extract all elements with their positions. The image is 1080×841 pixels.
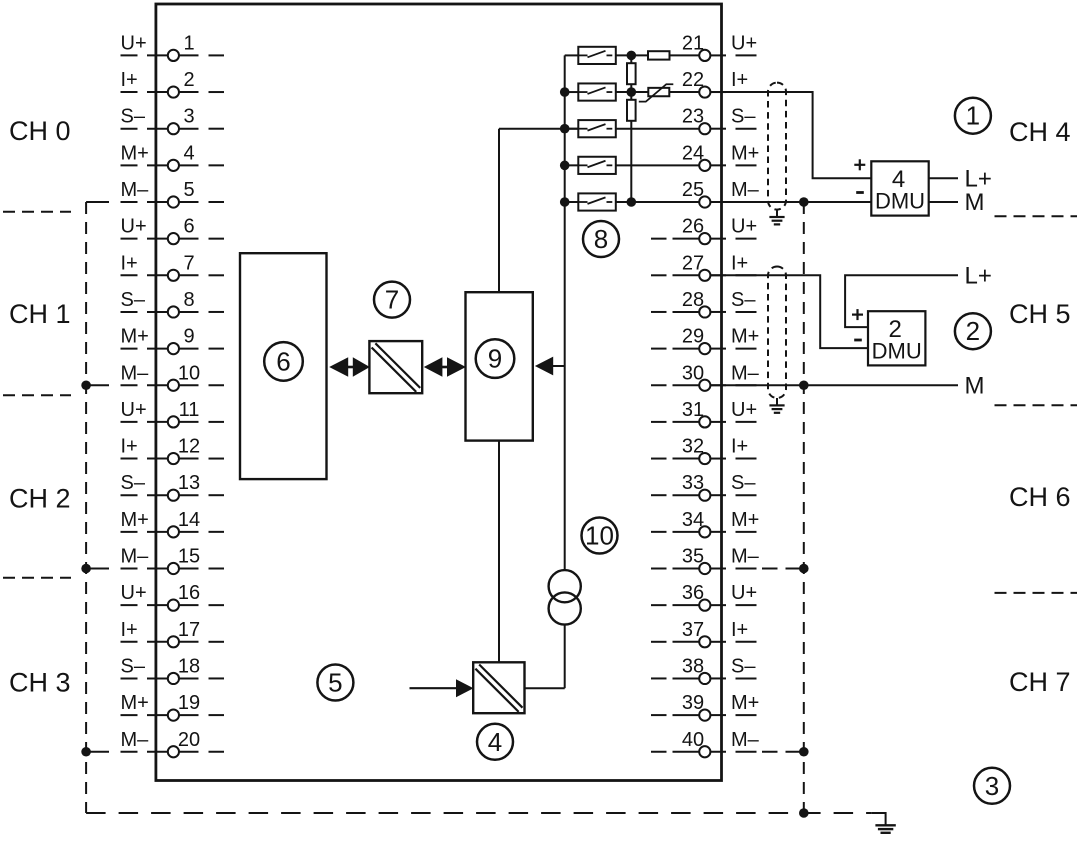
wire DMU1 to L+ supply	[929, 177, 958, 179]
svg-text:M–: M–	[121, 729, 150, 751]
wire bus to block 9 arrow	[552, 365, 565, 367]
bottom ground symbol bar 2	[878, 828, 893, 830]
wire block 9 bottom to block 4	[498, 441, 500, 663]
wire tick through border at terminal 38	[710, 677, 726, 679]
wire into block 4 arrow shaft	[410, 687, 458, 689]
terminal 36 inner dash	[651, 604, 667, 606]
svg-text:S–: S–	[121, 655, 146, 677]
terminal 10 label underline wire stub	[121, 384, 138, 386]
terminal 18 inner dash	[209, 677, 225, 679]
terminal 13 inner dash	[209, 494, 225, 496]
varistor RV1 diagonal	[639, 84, 674, 101]
wire varistor RV1 to terminal 22	[669, 91, 699, 93]
terminal 14 screw circle	[168, 526, 179, 537]
wire tick into module at terminal 6	[147, 238, 168, 240]
switch S1 contact	[578, 51, 612, 58]
wire resistor R1 to terminal 21	[670, 54, 700, 56]
terminal 35 label underline wire stub	[736, 568, 757, 570]
terminal 7 screw circle	[168, 270, 179, 281]
cable shield CH5 (dashed stadium)	[768, 267, 786, 399]
svg-text:M+: M+	[121, 142, 149, 164]
terminal 39 inner stub wire	[673, 714, 700, 716]
terminal 19 screw circle	[168, 710, 179, 721]
svg-text:3: 3	[985, 771, 999, 801]
wire tick through border at terminal 40	[710, 751, 726, 753]
terminal 3 label underline wire stub	[121, 128, 138, 130]
terminal 4 screw circle	[168, 160, 179, 171]
module enclosure border	[156, 4, 722, 781]
wire terminal 22 to DMU1 + input	[710, 92, 871, 178]
svg-text:I+: I+	[121, 69, 138, 91]
terminal 40 label underline wire stub	[736, 751, 757, 753]
terminal 29 label underline wire stub	[736, 348, 757, 350]
switch S1 box	[578, 47, 616, 64]
transformer winding circle upper	[549, 570, 581, 602]
terminal 36 inner stub wire	[673, 604, 700, 606]
wire dash from left ground bus to terminal 15	[86, 568, 109, 570]
cable shield CH4 (dashed stadium)	[768, 83, 786, 210]
block 6 (bus interface)	[240, 253, 327, 479]
svg-text:10: 10	[178, 362, 200, 384]
wire tick into module at terminal 1	[147, 54, 168, 56]
svg-text:5: 5	[183, 179, 194, 201]
terminal 11 screw circle	[168, 416, 179, 427]
svg-text:CH 0: CH 0	[9, 116, 71, 146]
terminal 6 label underline wire stub	[121, 238, 138, 240]
terminal 20 screw circle	[168, 746, 179, 757]
wire tick through border at terminal 31	[710, 421, 726, 423]
arrow from bus into block 9	[535, 357, 553, 376]
wire tick into module at terminal 18	[147, 677, 168, 679]
svg-text:1: 1	[183, 32, 194, 54]
terminal 12 screw circle	[168, 453, 179, 464]
DMU1 + polarity	[854, 159, 865, 170]
terminal 8 inner stub wire	[179, 311, 199, 313]
bidirectional arrow 7-9 right head	[447, 357, 466, 377]
wire tick through border at terminal 39	[710, 714, 726, 716]
wire MUX tap to switch row 23	[499, 128, 578, 130]
terminal 18 screw circle	[168, 673, 179, 684]
terminal 37 inner stub wire	[673, 641, 700, 643]
terminal 34 inner stub wire	[673, 531, 700, 533]
svg-text:15: 15	[178, 546, 200, 568]
DMU2 + polarity	[852, 309, 863, 320]
junction bus / switch row 25	[560, 197, 570, 207]
terminal 32 label underline wire stub	[736, 458, 757, 460]
svg-text:S–: S–	[731, 106, 756, 128]
terminal 27 label underline wire stub	[736, 274, 757, 276]
svg-text:M+: M+	[121, 692, 149, 714]
svg-text:17: 17	[178, 619, 200, 641]
svg-text:19: 19	[178, 692, 200, 714]
wire tick through border at terminal 30	[710, 384, 726, 386]
terminal 35 inner stub wire	[673, 568, 700, 570]
svg-text:M–: M–	[731, 179, 760, 201]
svg-text:U+: U+	[121, 216, 147, 238]
svg-text:L+: L+	[965, 262, 992, 289]
switch bus vertical wire (upper)	[564, 55, 566, 570]
svg-text:16: 16	[178, 582, 200, 604]
wire junction 21 to resistor R2	[630, 55, 632, 63]
svg-text:M+: M+	[121, 509, 149, 531]
shield ground CH5 bar 1	[769, 404, 784, 406]
terminal 37 inner dash	[651, 641, 667, 643]
terminal 5 screw circle	[168, 196, 179, 207]
terminal 30 screw circle	[699, 380, 710, 391]
wire bus to switch S3	[565, 128, 579, 130]
callout 4	[477, 724, 513, 760]
wire tick into module at terminal 12	[147, 458, 168, 460]
DMU2 - polarity	[854, 339, 862, 342]
svg-text:I+: I+	[731, 619, 748, 641]
svg-text:9: 9	[488, 344, 502, 374]
terminal 15 inner dash	[209, 568, 225, 570]
svg-text:M: M	[965, 189, 985, 216]
wire tick through border at terminal 37	[710, 641, 726, 643]
wire junction 22 to resistor R3	[630, 92, 632, 100]
junction of right bus on bottom grounding line	[799, 808, 809, 818]
svg-text:DMU: DMU	[872, 339, 922, 364]
terminal 28 label underline wire stub	[736, 311, 757, 313]
svg-text:M–: M–	[731, 362, 760, 384]
terminal 33 screw circle	[699, 490, 710, 501]
svg-text:2: 2	[183, 69, 194, 91]
svg-text:14: 14	[178, 509, 200, 531]
svg-text:8: 8	[183, 289, 194, 311]
svg-text:10: 10	[585, 521, 614, 551]
terminal 33 label underline wire stub	[736, 494, 757, 496]
wire tick into module at terminal 13	[147, 494, 168, 496]
junction row 21 / divider	[627, 51, 637, 61]
callout 3	[974, 768, 1010, 804]
junction on left ground bus at terminal 20	[81, 747, 91, 757]
svg-text:I+: I+	[121, 619, 138, 641]
terminal 39 label underline wire stub	[736, 714, 757, 716]
wire bus to switch S1	[565, 54, 579, 56]
switch S2 box	[578, 83, 616, 100]
terminal 15 label underline wire stub	[121, 568, 138, 570]
svg-text:20: 20	[178, 729, 200, 751]
terminal 33 inner stub wire	[673, 494, 700, 496]
wire DMU1 to M supply	[929, 201, 958, 203]
bottom ground symbol bar 1	[875, 824, 895, 826]
wire bus to switch S2	[565, 91, 579, 93]
svg-text:2: 2	[966, 316, 980, 346]
terminal 35 inner dash	[651, 568, 667, 570]
wire resistor R2 to junction 22	[630, 84, 632, 92]
terminal 31 label underline wire stub	[736, 421, 757, 423]
svg-text:U+: U+	[121, 399, 147, 421]
wire tick through border at terminal 21	[710, 54, 726, 56]
terminal 12 inner stub wire	[179, 458, 199, 460]
svg-text:M–: M–	[121, 546, 150, 568]
callout 1	[955, 98, 991, 134]
svg-text:CH 6: CH 6	[1009, 482, 1071, 512]
wire tick into module at terminal 17	[147, 641, 168, 643]
callout 5	[317, 665, 353, 701]
terminal 10 inner dash	[209, 384, 225, 386]
svg-text:CH 3: CH 3	[9, 668, 71, 698]
shield ground CH5 bar 2	[772, 408, 783, 410]
terminal 4 inner dash	[209, 164, 225, 166]
bottom dashed grounding line	[86, 812, 872, 814]
terminal 20 inner dash	[209, 751, 225, 753]
svg-text:11: 11	[179, 399, 200, 421]
svg-text:M–: M–	[121, 362, 150, 384]
terminal 15 inner stub wire	[179, 568, 199, 570]
terminal 31 inner stub wire	[673, 421, 700, 423]
terminal 24 screw circle	[699, 160, 710, 171]
terminal 6 screw circle	[168, 233, 179, 244]
svg-text:9: 9	[183, 326, 194, 348]
terminal 9 inner stub wire	[179, 348, 199, 350]
wire tick through border at terminal 24	[710, 164, 726, 166]
junction row 22 / divider	[627, 87, 637, 97]
wire dash from left ground bus to terminal 10	[86, 384, 109, 386]
terminal 40 inner dash	[651, 751, 667, 753]
wire bus to switch S5	[565, 201, 579, 203]
wire tick through border at terminal 27	[710, 274, 726, 276]
junction bus / switch row 24	[560, 161, 570, 171]
wire tick through border at terminal 36	[710, 604, 726, 606]
svg-text:M+: M+	[731, 509, 759, 531]
callout 2	[955, 313, 991, 349]
left dashed M- ground bus (vertical)	[85, 202, 87, 813]
junction bus / switch row 22	[560, 87, 570, 97]
wire tick into module at terminal 10	[147, 384, 168, 386]
wire tick into module at terminal 5	[147, 201, 168, 203]
wire tick into module at terminal 2	[147, 91, 168, 93]
callout 10	[582, 518, 618, 554]
svg-text:S–: S–	[731, 289, 756, 311]
terminal 12 inner dash	[209, 458, 225, 460]
svg-text:M–: M–	[731, 546, 760, 568]
shield ground CH4 bar 3	[774, 223, 780, 225]
terminal 28 inner stub wire	[673, 311, 700, 313]
wire tick through border at terminal 26	[710, 238, 726, 240]
wire tick through border at terminal 22	[710, 91, 726, 93]
wire bus to switch S4	[565, 164, 579, 166]
terminal 5 inner stub wire	[179, 201, 199, 203]
wire switch S3 to terminal 23	[616, 128, 699, 130]
terminal 16 label underline wire stub	[121, 604, 138, 606]
wire tick through border at terminal 25	[710, 201, 726, 203]
switch S4 contact	[578, 161, 612, 168]
wire terminal 25 to DMU1 - input	[710, 201, 871, 203]
terminal 7 label underline wire stub	[121, 274, 138, 276]
terminal 16 screw circle	[168, 600, 179, 611]
terminal 20 label underline wire stub	[121, 751, 138, 753]
terminal 7 inner dash	[209, 274, 225, 276]
terminal 39 screw circle	[699, 710, 710, 721]
terminal 8 inner dash	[209, 311, 225, 313]
wire tick into module at terminal 20	[147, 751, 168, 753]
shield ground CH4 bar 2	[772, 220, 783, 222]
terminal 2 inner dash	[209, 91, 225, 93]
switch S2 contact	[578, 87, 612, 94]
terminal 2 inner stub wire	[179, 91, 199, 93]
wire terminal 30 to M supply	[710, 384, 958, 386]
terminal 3 screw circle	[168, 123, 179, 134]
wire tick into module at terminal 14	[147, 531, 168, 533]
wire tick through border at terminal 34	[710, 531, 726, 533]
terminal 30 inner stub wire	[673, 384, 700, 386]
terminal 22 screw circle	[699, 86, 710, 97]
svg-text:U+: U+	[731, 32, 757, 54]
wire tick through border at terminal 35	[710, 568, 726, 570]
terminal 26 label underline wire stub	[736, 238, 757, 240]
terminal 18 inner stub wire	[179, 677, 199, 679]
svg-text:DMU: DMU	[875, 189, 925, 214]
wire L+ supply to DMU2 + input	[845, 275, 958, 327]
transformer winding circle lower	[549, 592, 581, 624]
block 4 (DC/DC converter) box	[473, 662, 524, 713]
wire tick into module at terminal 16	[147, 604, 168, 606]
svg-text:CH 2: CH 2	[9, 483, 71, 513]
switch S3 contact	[578, 124, 612, 131]
svg-text:M+: M+	[731, 692, 759, 714]
terminal 39 inner dash	[651, 714, 667, 716]
wire tick through border at terminal 33	[710, 494, 726, 496]
right channel separator dashes 1	[995, 404, 1078, 406]
terminal 35 screw circle	[699, 563, 710, 574]
terminal 11 inner dash	[209, 421, 225, 423]
svg-text:S–: S–	[121, 289, 146, 311]
junction on left ground bus at terminal 15	[81, 564, 91, 574]
callout 6	[264, 342, 303, 381]
resistor R1 (series)	[648, 51, 670, 59]
svg-text:I+: I+	[121, 252, 138, 274]
terminal 36 label underline wire stub	[736, 604, 757, 606]
wire terminal 27 to DMU2 - input	[710, 275, 868, 348]
wire tick through border at terminal 28	[710, 311, 726, 313]
dashed wire terminal 35 to right bus (seg1)	[762, 568, 778, 570]
switch S5 contact	[578, 197, 612, 204]
terminal 26 inner stub wire	[673, 238, 700, 240]
svg-text:3: 3	[183, 106, 194, 128]
svg-text:4: 4	[183, 142, 194, 164]
isolator block (element 7) box	[369, 341, 422, 393]
wire dash from left ground bus to terminal 20	[86, 751, 109, 753]
svg-text:I+: I+	[731, 436, 748, 458]
terminal 40 screw circle	[699, 746, 710, 757]
terminal 16 inner stub wire	[179, 604, 199, 606]
terminal 17 inner dash	[209, 641, 225, 643]
terminal 33 inner dash	[651, 494, 667, 496]
terminal 28 screw circle	[699, 306, 710, 317]
svg-text:4: 4	[488, 727, 502, 757]
terminal 4 inner stub wire	[179, 164, 199, 166]
svg-text:M: M	[965, 372, 985, 399]
shield ground lead CH4	[776, 210, 778, 217]
terminal 28 inner dash	[651, 311, 667, 313]
svg-text:CH 5: CH 5	[1009, 299, 1071, 329]
terminal 6 inner stub wire	[179, 238, 199, 240]
varistor RV1 box	[648, 88, 669, 96]
terminal 36 screw circle	[699, 600, 710, 611]
bidirectional arrow 6-7 right head	[353, 357, 370, 377]
block 9 (ADC)	[466, 292, 533, 440]
wire tick into module at terminal 19	[147, 714, 168, 716]
wire tick into module at terminal 11	[147, 421, 168, 423]
terminal 17 label underline wire stub	[121, 641, 138, 643]
terminal 27 inner dash	[651, 274, 667, 276]
svg-text:U+: U+	[121, 582, 147, 604]
resistor R3 (vertical divider)	[627, 100, 636, 121]
terminal 10 screw circle	[168, 380, 179, 391]
svg-text:6: 6	[183, 216, 194, 238]
wire resistor R3 down to junction 25	[630, 121, 632, 202]
svg-text:S–: S–	[121, 106, 146, 128]
wire dash from left ground bus to terminal 5	[86, 201, 109, 203]
dashed wire terminal 35 to right bus (seg2)	[786, 568, 801, 570]
svg-text:8: 8	[594, 224, 608, 254]
wire tick into module at terminal 7	[147, 274, 168, 276]
terminal 32 inner dash	[651, 458, 667, 460]
terminal 13 label underline wire stub	[121, 494, 138, 496]
terminal 17 screw circle	[168, 636, 179, 647]
terminal 26 screw circle	[699, 233, 710, 244]
terminal 29 inner stub wire	[673, 348, 700, 350]
terminal 34 label underline wire stub	[736, 531, 757, 533]
terminal 10 inner stub wire	[179, 384, 199, 386]
wire switch S1 to resistor	[616, 54, 648, 56]
terminal 38 label underline wire stub	[736, 677, 757, 679]
wire switch S4 to terminal 24	[616, 164, 699, 166]
terminal 37 screw circle	[699, 636, 710, 647]
terminal 1 inner stub wire	[179, 54, 199, 56]
wire tick through border at terminal 32	[710, 458, 726, 460]
terminal 30 label underline wire stub	[736, 384, 757, 386]
terminal 38 inner dash	[651, 677, 667, 679]
wire tick into module at terminal 9	[147, 348, 168, 350]
terminal 19 inner dash	[209, 714, 225, 716]
left channel separator dashes 0	[3, 211, 71, 213]
bidirectional arrow 6-7 left head	[329, 357, 348, 377]
isolator block diagonal stripe a	[372, 348, 417, 392]
svg-text:U+: U+	[731, 216, 757, 238]
svg-text:5: 5	[328, 668, 342, 698]
svg-text:M+: M+	[731, 142, 759, 164]
terminal 13 screw circle	[168, 490, 179, 501]
terminal 2 screw circle	[168, 86, 179, 97]
resistor R2 (vertical divider)	[627, 63, 636, 84]
svg-text:1: 1	[966, 101, 980, 131]
arrow head into block 4	[456, 679, 474, 697]
terminal 27 screw circle	[699, 270, 710, 281]
terminal 37 label underline wire stub	[736, 641, 757, 643]
junction row 25 / divider	[627, 197, 637, 207]
terminal 17 inner stub wire	[179, 641, 199, 643]
terminal 7 inner stub wire	[179, 274, 199, 276]
DMU1 - polarity	[856, 191, 864, 194]
terminal 4 label underline wire stub	[121, 164, 138, 166]
transducer DMU2 box	[868, 311, 925, 365]
transducer DMU1 box	[871, 161, 928, 215]
svg-text:6: 6	[276, 346, 290, 376]
right channel separator dashes 0	[995, 215, 1078, 217]
terminal 20 inner stub wire	[179, 751, 199, 753]
terminal 27 inner stub wire	[673, 274, 700, 276]
terminal 25 label underline wire stub	[736, 201, 757, 203]
wire switch S2 to varistor	[616, 91, 649, 93]
junction terminal-25 wire / right ground bus	[799, 197, 809, 207]
terminal 32 screw circle	[699, 453, 710, 464]
callout 9	[476, 339, 515, 378]
terminal 5 label underline wire stub	[121, 201, 138, 203]
terminal 11 inner stub wire	[179, 421, 199, 423]
terminal 6 inner dash	[209, 238, 225, 240]
